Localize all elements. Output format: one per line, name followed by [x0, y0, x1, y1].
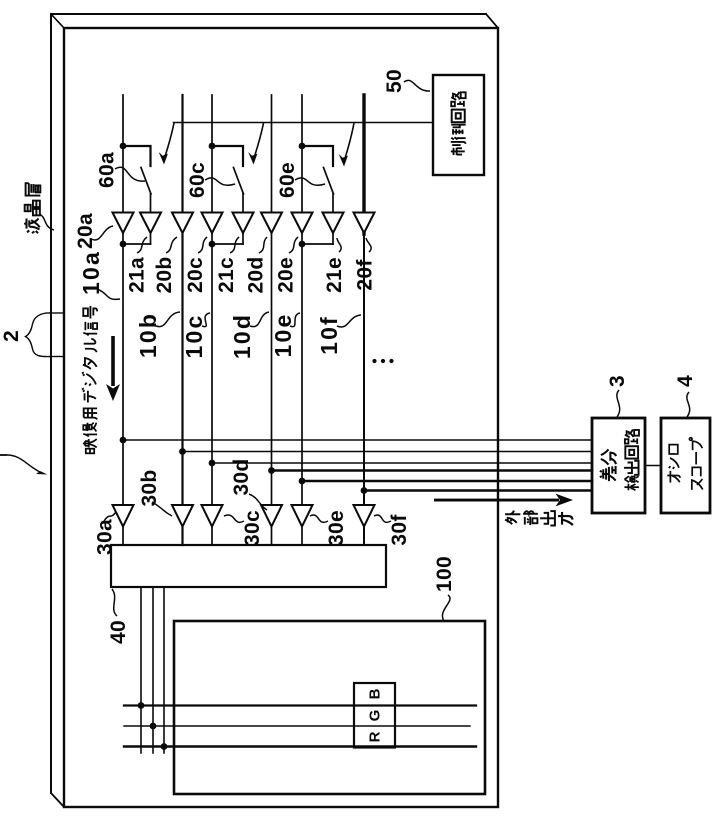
svg-text:60a: 60a	[96, 152, 119, 188]
svg-text:3: 3	[606, 375, 629, 387]
svg-text:30d: 30d	[230, 458, 253, 495]
svg-text:20c: 20c	[184, 257, 207, 293]
svg-text:30f: 30f	[388, 514, 411, 546]
svg-text:20b: 20b	[153, 256, 176, 293]
svg-text:30c: 30c	[241, 510, 264, 546]
svg-text:20d: 20d	[245, 256, 268, 293]
svg-text:60c: 60c	[186, 162, 209, 198]
svg-text:20f: 20f	[354, 259, 377, 291]
svg-text:40: 40	[107, 620, 130, 644]
svg-text:10b: 10b	[135, 312, 161, 358]
svg-text:R: R	[367, 731, 384, 742]
svg-text:30a: 30a	[94, 519, 117, 555]
svg-text:20a: 20a	[74, 213, 97, 249]
svg-text:21e: 21e	[323, 257, 346, 293]
svg-text:10d: 10d	[229, 313, 255, 359]
svg-text:10e: 10e	[270, 313, 296, 358]
svg-text:100: 100	[433, 556, 456, 592]
svg-text:20e: 20e	[275, 257, 298, 293]
svg-text:50: 50	[383, 69, 406, 93]
svg-text:2: 2	[0, 330, 23, 342]
svg-text:4: 4	[674, 375, 697, 387]
svg-text:10f: 10f	[316, 315, 342, 355]
svg-text:30e: 30e	[325, 510, 348, 546]
svg-text:B: B	[367, 688, 384, 699]
svg-text:10a: 10a	[78, 250, 104, 295]
svg-text:21c: 21c	[215, 257, 238, 293]
svg-text:21a: 21a	[126, 257, 149, 293]
svg-text:10c: 10c	[181, 314, 207, 359]
svg-text:G: G	[367, 710, 384, 722]
svg-text:30b: 30b	[138, 469, 161, 506]
svg-text:60e: 60e	[276, 162, 299, 198]
